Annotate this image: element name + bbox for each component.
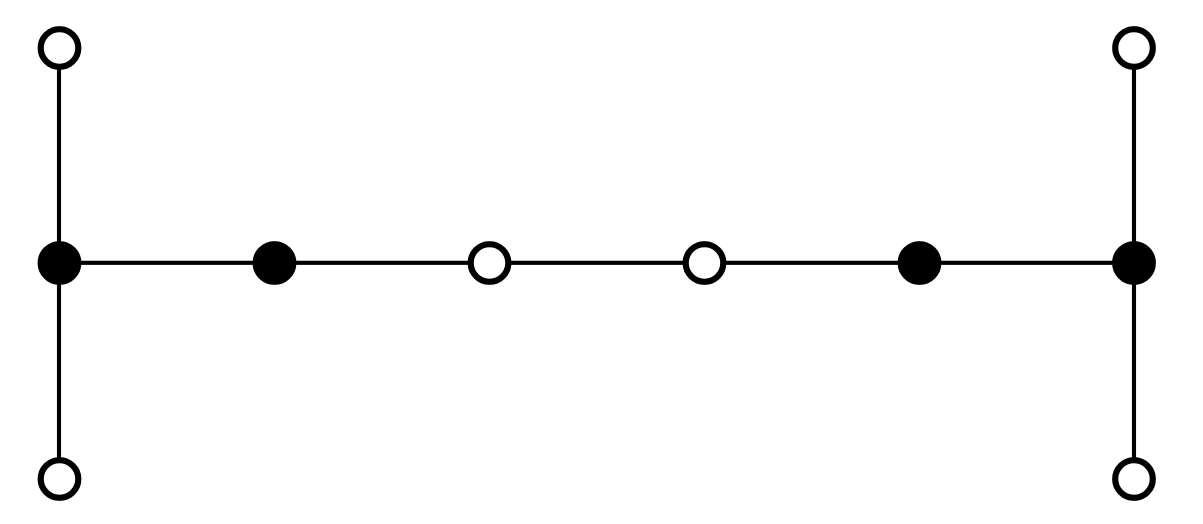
node BL (open circle, bottom-left)	[41, 460, 79, 498]
node A (filled circle, far left of horizontal chain)	[41, 244, 79, 282]
node D (open circle, fourth on chain)	[686, 244, 724, 282]
node BR (open circle, bottom-right)	[1115, 460, 1153, 498]
node TL (open circle, top-left)	[41, 29, 79, 67]
wire: left vertical edge from node TL through A to node BL	[57, 48, 61, 479]
node E (filled circle, fifth on chain)	[901, 244, 939, 282]
wire: horizontal edge chain from node A to node F	[59, 261, 1134, 265]
node B (filled circle, second on chain)	[256, 244, 294, 282]
node C (open circle, third on chain)	[471, 244, 509, 282]
node TR (open circle, top-right)	[1115, 29, 1153, 67]
node F (filled circle, far right of chain)	[1115, 244, 1153, 282]
wire: right vertical edge from node TR through F to node BR	[1132, 48, 1136, 479]
